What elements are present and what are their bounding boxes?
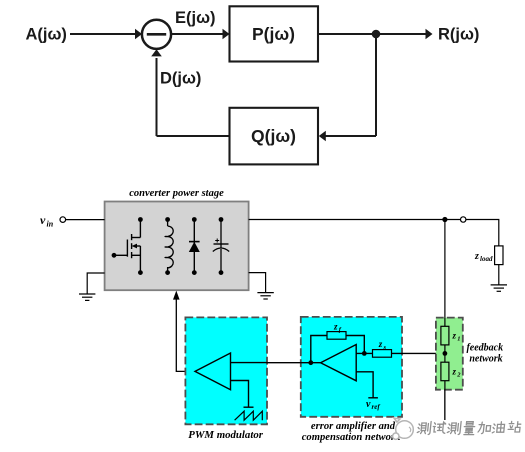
svg-text:feedback: feedback — [466, 343, 503, 354]
svg-text:s: s — [383, 344, 387, 351]
svg-text:load: load — [480, 255, 493, 263]
svg-text:2: 2 — [456, 372, 461, 379]
svg-text:R(jω): R(jω) — [438, 26, 479, 44]
svg-text:E(jω): E(jω) — [175, 9, 216, 27]
svg-text:error amplifier and: error amplifier and — [311, 421, 396, 432]
svg-text:v: v — [40, 213, 46, 227]
svg-text:v: v — [366, 399, 371, 410]
svg-text:z: z — [452, 367, 457, 377]
svg-text:PWM modulator: PWM modulator — [188, 429, 263, 441]
svg-text:z: z — [452, 331, 457, 341]
svg-text:converter power stage: converter power stage — [129, 188, 224, 199]
svg-text:network: network — [469, 353, 502, 364]
svg-text:z: z — [474, 251, 479, 262]
svg-text:compensation network: compensation network — [302, 432, 401, 443]
svg-text:D(jω): D(jω) — [160, 70, 201, 88]
svg-text:in: in — [47, 220, 54, 229]
svg-text:z: z — [378, 339, 383, 349]
svg-text:P(jω): P(jω) — [252, 24, 295, 44]
svg-text:ref: ref — [372, 403, 381, 411]
svg-text:z: z — [333, 322, 338, 332]
svg-text:1: 1 — [457, 336, 460, 343]
svg-text:A(jω): A(jω) — [26, 25, 67, 43]
svg-text:Q(jω): Q(jω) — [251, 126, 296, 146]
